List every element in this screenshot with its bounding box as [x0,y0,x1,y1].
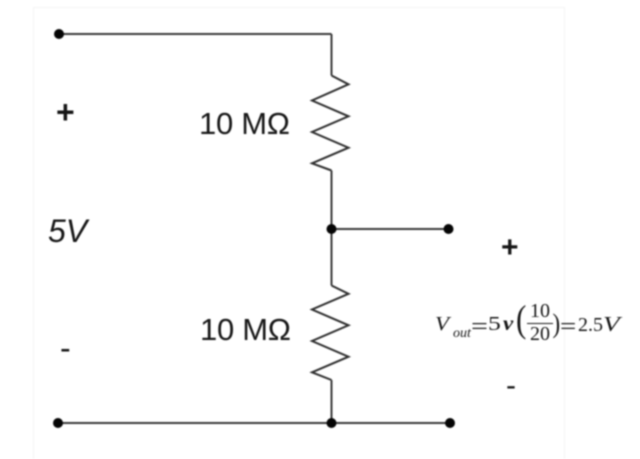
label output minus sign [506,371,516,401]
wire vertical from top rail down to R1 [331,34,333,76]
wire mid tap to output terminal [332,228,449,230]
node bottom-left negative terminal [53,418,63,428]
label output plus sign [501,233,519,263]
resistor R1 10 Mohm zigzag [312,76,349,171]
node output positive terminal [444,224,454,234]
wire from R2 down to bottom rail [331,380,333,423]
label value R2 10 Mohm [200,314,291,345]
node output negative terminal [445,418,455,428]
node top-left positive terminal [54,29,64,39]
label source plus sign [56,96,75,128]
wire from R1 down to mid node [331,171,333,230]
label value R1 10 Mohm [199,108,290,139]
formula Vout = 5v(10/20) = 2.5V [0,0,1,1]
label source minus sign [60,332,71,364]
wire top rail from positive terminal to resistor branch [59,33,332,35]
label source voltage 5V [48,215,87,247]
wire bottom rail [58,422,450,424]
node mid tap junction [327,224,337,234]
wire from mid node down to R2 [331,229,333,286]
resistor R2 10 Mohm zigzag [312,286,349,381]
node bottom junction [327,418,337,428]
